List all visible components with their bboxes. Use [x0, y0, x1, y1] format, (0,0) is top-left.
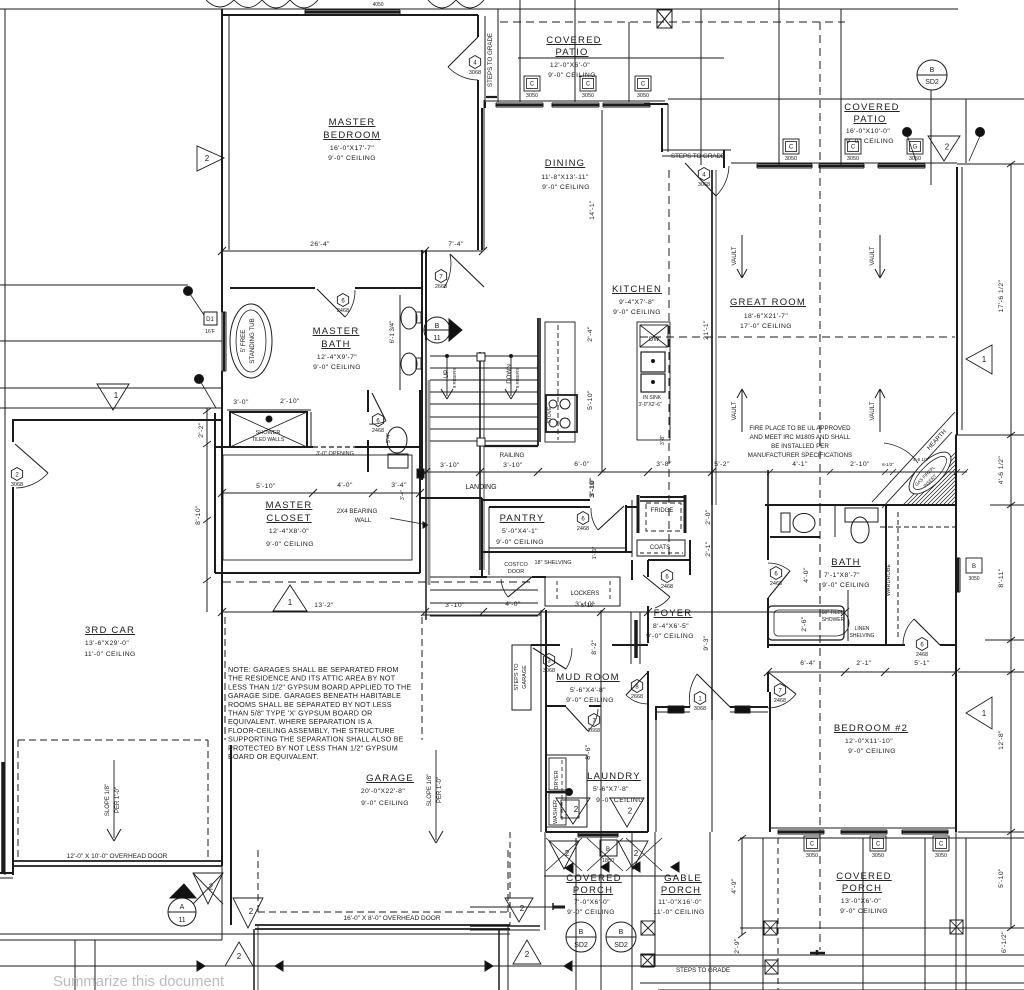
- svg-text:B: B: [972, 564, 976, 570]
- stove: [546, 395, 577, 432]
- wall master bedroom top: [222, 14, 478, 16]
- svg-text:G: G: [913, 145, 918, 151]
- svg-text:RAILING: RAILING: [500, 452, 525, 459]
- svg-text:ROOMS SHALL BE SEPARATED BY NO: ROOMS SHALL BE SEPARATED BY NOT LESS: [228, 700, 392, 709]
- arrow porch 4: [671, 862, 679, 872]
- washer appliance: [561, 800, 579, 818]
- wall bedroom2 right: [955, 435, 957, 832]
- svg-text:VAULT: VAULT: [869, 401, 876, 420]
- svg-text:2: 2: [574, 805, 579, 814]
- door 3rdcar side: [15, 444, 48, 473]
- node dot right patio 2: [976, 128, 985, 137]
- wall bath top: [765, 504, 956, 506]
- arrow porch 1: [565, 863, 573, 873]
- wall 3rdcar right: [221, 420, 223, 866]
- svg-text:3050: 3050: [526, 93, 538, 99]
- svg-text:1: 1: [288, 598, 293, 607]
- svg-text:PANTRY: PANTRY: [500, 513, 545, 524]
- wire porch left edge: [507, 925, 509, 990]
- wire gable v3: [709, 832, 711, 990]
- svg-text:3068: 3068: [698, 182, 710, 188]
- svg-text:2468: 2468: [372, 428, 384, 434]
- svg-text:PER 1'-0": PER 1'-0": [437, 777, 443, 803]
- svg-text:6: 6: [341, 298, 345, 304]
- wall garage front stub L: [253, 929, 255, 990]
- wall master bedroom left: [221, 9, 223, 250]
- wire dim h 435: [955, 434, 1024, 436]
- svg-text:12'-4"X9'-7": 12'-4"X9'-7": [317, 354, 357, 361]
- svg-text:SHOWER: SHOWER: [256, 430, 281, 436]
- wall corridor left: [484, 16, 486, 102]
- wall pantry bottom inner: [489, 547, 626, 549]
- svg-text:9'-0" CEILING: 9'-0" CEILING: [613, 309, 661, 316]
- wardrobe dash 2: [880, 526, 956, 528]
- post porch 2: [950, 920, 963, 934]
- svg-text:2468: 2468: [337, 308, 349, 314]
- svg-text:WALL: WALL: [355, 517, 372, 524]
- svg-text:STEPS TO: STEPS TO: [514, 663, 520, 691]
- triangle 2 laundry 2: [610, 798, 644, 827]
- svg-text:11'-8"X13'-11": 11'-8"X13'-11": [541, 174, 589, 181]
- svg-text:18'-6"X21'-7": 18'-6"X21'-7": [744, 313, 789, 320]
- svg-text:5'-0"X4'-1": 5'-0"X4'-1": [502, 528, 538, 535]
- svg-text:AND MEET IRC M1805 AND SHALL: AND MEET IRC M1805 AND SHALL: [750, 434, 851, 441]
- svg-text:4'-0": 4'-0": [337, 482, 353, 489]
- svg-text:2: 2: [634, 849, 639, 858]
- svg-text:7'-0"X6'-0": 7'-0"X6'-0": [574, 899, 610, 906]
- svg-text:9'-0" CEILING: 9'-0" CEILING: [846, 138, 894, 145]
- svg-text:BATH: BATH: [831, 557, 860, 568]
- door hall: [566, 707, 588, 731]
- svg-text:CLOSET: CLOSET: [266, 513, 311, 524]
- railing thick: [484, 445, 538, 447]
- fireplace hatch: [935, 483, 957, 505]
- vanity counter: [399, 295, 401, 390]
- stair tread: [430, 428, 538, 430]
- svg-text:3'-0": 3'-0": [233, 399, 249, 406]
- porch roof X 1: [546, 838, 582, 871]
- wire ridge dashed vertical lower: [819, 505, 821, 950]
- stair tread lower: [430, 589, 538, 591]
- svg-text:2: 2: [565, 849, 570, 858]
- svg-text:3'-8": 3'-8": [656, 461, 672, 468]
- door master bath: [317, 289, 345, 317]
- svg-text:C: C: [530, 82, 535, 88]
- wire porch v4: [924, 838, 926, 990]
- svg-text:COVERED: COVERED: [546, 35, 601, 46]
- shower master: [230, 412, 307, 447]
- door tag 4 master: [469, 56, 480, 69]
- svg-text:B: B: [619, 929, 624, 936]
- svg-text:3050: 3050: [637, 93, 649, 99]
- svg-text:3068: 3068: [543, 668, 555, 674]
- wire porch dashed: [509, 832, 511, 925]
- wall garage front stub R: [498, 929, 500, 990]
- wire right dim line: [1010, 164, 1012, 928]
- wall jog top: [644, 103, 668, 105]
- wire roofline left 4: [0, 407, 222, 409]
- svg-text:DINING: DINING: [545, 158, 585, 169]
- svg-text:4'-6 1/2": 4'-6 1/2": [913, 457, 930, 462]
- wall laundry bottom: [546, 831, 648, 833]
- triangle porch 2: [618, 841, 648, 869]
- door tag 7 master hall: [435, 270, 446, 283]
- wire dashed floorline: [223, 581, 533, 583]
- fridge top: [640, 496, 685, 498]
- svg-text:2: 2: [205, 154, 210, 163]
- wall bath right: [421, 250, 423, 480]
- svg-text:STEPS TO GRADE: STEPS TO GRADE: [676, 967, 730, 974]
- svg-text:PORCH: PORCH: [573, 885, 613, 896]
- wall left lower stub: [1, 762, 5, 872]
- svg-text:9'-0" CEILING: 9'-0" CEILING: [848, 748, 896, 755]
- wall great room left inner: [715, 170, 717, 505]
- washer: [549, 793, 566, 825]
- svg-text:C: C: [851, 145, 856, 151]
- wire dim h 640: [985, 639, 1024, 641]
- svg-text:3'-10": 3'-10": [589, 477, 596, 497]
- wall patio sill line: [485, 100, 665, 102]
- svg-text:3068: 3068: [11, 482, 23, 488]
- svg-text:WASHER: WASHER: [553, 800, 559, 824]
- door tag bedroom2: [916, 638, 927, 651]
- marker A11 arrow: [170, 884, 196, 898]
- svg-text:BEDROOM #2: BEDROOM #2: [834, 723, 908, 734]
- wire dim line master: [222, 250, 483, 252]
- wall bath top left: [230, 287, 315, 289]
- door tag 6 bath: [337, 294, 348, 307]
- svg-text:17'-0" CEILING: 17'-0" CEILING: [740, 323, 792, 330]
- svg-text:A: A: [180, 904, 185, 911]
- triangle 1 left: [97, 384, 129, 410]
- window tag great 1: [783, 139, 799, 154]
- wall spine upper: [425, 250, 427, 340]
- svg-text:6: 6: [774, 571, 778, 577]
- wall jog vertical inner: [667, 104, 669, 152]
- door master hall: [450, 254, 484, 287]
- triangle 1 bedroom: [966, 697, 992, 729]
- shrub arc 2: [428, 0, 456, 8]
- wall jog 2: [723, 150, 725, 168]
- wall bath left upper: [767, 505, 769, 560]
- svg-text:5'-6"X7'-8": 5'-6"X7'-8": [593, 786, 629, 793]
- svg-text:2468: 2468: [661, 584, 673, 590]
- door foyer closet: [643, 575, 670, 597]
- tub master: [230, 304, 272, 378]
- svg-text:WARDROBE: WARDROBE: [886, 564, 892, 597]
- door tag 3rdcar: [11, 468, 22, 481]
- post top: [657, 10, 672, 28]
- 3rdcar door dashed R: [207, 740, 209, 861]
- post gable 2: [641, 954, 654, 967]
- island dashed: [557, 325, 559, 440]
- wall pantry right inner: [631, 500, 633, 557]
- svg-text:4'-1": 4'-1": [792, 461, 808, 468]
- wire roofline left 3: [0, 387, 222, 389]
- slope arrow 3rdcar: [113, 760, 115, 838]
- wire eave dashed top: [500, 21, 845, 23]
- wall fridge right: [684, 495, 687, 533]
- wall front left: [655, 706, 690, 708]
- wire roof dashed kitchen: [668, 170, 670, 560]
- wire bl h: [0, 939, 222, 941]
- wire steps line right: [640, 954, 1024, 956]
- shrub arc 2b: [456, 0, 484, 8]
- sink 2: [641, 374, 665, 392]
- dim tick right: [1007, 669, 1015, 675]
- svg-text:11'-0" CEILING: 11'-0" CEILING: [653, 909, 705, 916]
- svg-text:12'-4"X8'-0": 12'-4"X8'-0": [269, 528, 309, 535]
- svg-text:2468: 2468: [774, 698, 786, 704]
- svg-text:7: 7: [778, 688, 782, 694]
- door tag mud2: [631, 680, 642, 693]
- wall wardrobe left: [885, 505, 887, 645]
- svg-text:STEPS TO GRADE: STEPS TO GRADE: [671, 153, 725, 160]
- svg-text:13'-0"X6'-0": 13'-0"X6'-0": [841, 898, 881, 905]
- wire porch v right: [965, 838, 967, 990]
- wire dim stairs: [420, 471, 720, 473]
- wire dim h 164: [957, 163, 1024, 165]
- window bedroom2 b1: [778, 829, 824, 831]
- kitchen counter right: [637, 322, 670, 440]
- window patio 2: [552, 102, 599, 104]
- wire dim h 505: [990, 504, 1024, 506]
- svg-text:9'-0" CEILING: 9'-0" CEILING: [496, 539, 544, 546]
- ridge end tick: [816, 950, 819, 955]
- toilet master: [387, 427, 407, 453]
- svg-text:21'-1": 21'-1": [703, 320, 710, 340]
- wall wc right: [834, 505, 836, 537]
- dim tick right: [1007, 925, 1015, 931]
- section marker B11: [424, 317, 450, 343]
- stair tread: [430, 367, 538, 369]
- wall pantry bottom: [482, 551, 632, 553]
- svg-text:2668: 2668: [631, 694, 643, 700]
- vault arrow down: [741, 235, 743, 277]
- arrow bottom line 1: [197, 961, 205, 971]
- svg-text:FOYER: FOYER: [654, 608, 693, 619]
- svg-text:1'-11": 1'-11": [592, 547, 598, 560]
- svg-text:9'-0" CEILING: 9'-0" CEILING: [822, 582, 870, 589]
- triangle 1 great room: [966, 345, 992, 374]
- svg-text:SLOPE 1/8": SLOPE 1/8": [427, 774, 433, 806]
- svg-text:7'-1"X8'-7": 7'-1"X8'-7": [824, 572, 860, 579]
- svg-text:VAULT: VAULT: [731, 401, 738, 420]
- svg-text:3050: 3050: [806, 853, 818, 859]
- arrow grade 2: [564, 961, 572, 971]
- wall 3rdcar top: [13, 419, 222, 421]
- fireplace hatch: [939, 487, 957, 505]
- svg-text:2: 2: [628, 807, 633, 816]
- svg-text:6'-1/2": 6'-1/2": [1001, 931, 1008, 953]
- svg-text:STOVE: STOVE: [547, 406, 553, 424]
- svg-text:6'-4": 6'-4": [800, 660, 816, 667]
- svg-text:GABLE: GABLE: [664, 873, 702, 884]
- svg-text:2'-10": 2'-10": [850, 461, 870, 468]
- svg-text:13'-6"X29'-0": 13'-6"X29'-0": [85, 640, 130, 647]
- door bedroom hall: [768, 672, 796, 694]
- fireplace hatch: [919, 467, 957, 505]
- door toilet room: [372, 393, 386, 421]
- wire dim shower: [227, 409, 311, 411]
- wire porch line: [470, 906, 556, 908]
- svg-text:1: 1: [982, 355, 987, 364]
- svg-text:5'-10": 5'-10": [256, 483, 276, 490]
- triangle 2 top left: [197, 146, 224, 171]
- triangle 2 laundry 1: [556, 798, 590, 824]
- wire SD2 leader: [930, 90, 932, 185]
- svg-text:B: B: [930, 67, 935, 74]
- svg-text:3'-10": 3'-10": [440, 462, 460, 469]
- wall bath top right: [355, 287, 422, 289]
- wall pantry top: [489, 506, 590, 508]
- triangle 2 bl 2: [233, 898, 263, 928]
- svg-text:5'-4": 5'-4": [386, 433, 392, 443]
- island left: [539, 318, 541, 442]
- svg-text:2: 2: [525, 950, 530, 959]
- svg-text:FLOOR-CEILING ASSEMBLY, THE ST: FLOOR-CEILING ASSEMBLY, THE STRUCTURE: [228, 726, 395, 735]
- wall jog vertical: [661, 108, 663, 152]
- leader shower dot: [199, 379, 216, 408]
- up arrow shaft: [446, 356, 448, 396]
- wall 3rdcar left upper: [12, 419, 14, 442]
- triangle porch 1: [549, 841, 579, 869]
- svg-text:SD2: SD2: [614, 942, 628, 949]
- wire steps line 2: [640, 982, 1024, 984]
- svg-text:LESS THAN 1/2" GYPSUM BOARD AP: LESS THAN 1/2" GYPSUM BOARD APPLIED TO T…: [228, 682, 411, 691]
- svg-text:THAN 5/8" TYPE 'X' GYPSUM BOAR: THAN 5/8" TYPE 'X' GYPSUM BOARD OR: [228, 709, 373, 718]
- wire gable post left: [655, 712, 657, 832]
- tub bath: [768, 606, 844, 640]
- wire porch v1: [762, 838, 764, 990]
- fireplace hatch: [907, 455, 957, 505]
- svg-text:C: C: [641, 82, 646, 88]
- node dot shower drain: [266, 416, 272, 422]
- X mark bl: [193, 873, 223, 904]
- svg-text:9'-0" CEILING: 9'-0" CEILING: [313, 364, 361, 371]
- svg-text:9'-4"X7'-8": 9'-4"X7'-8": [619, 299, 655, 306]
- svg-text:18" SHELVING: 18" SHELVING: [534, 560, 571, 566]
- post porch 3: [765, 960, 778, 974]
- burner 1: [560, 399, 570, 409]
- svg-text:THE RESIDENCE AND ITS ATTIC AR: THE RESIDENCE AND ITS ATTIC AREA BY NOT: [228, 674, 396, 683]
- wire dim line great room ext: [720, 471, 967, 473]
- wall great room top sill: [731, 162, 957, 164]
- svg-text:8'-11": 8'-11": [998, 568, 1005, 587]
- svg-text:MASTER: MASTER: [329, 117, 376, 128]
- svg-text:9'-0" CEILING: 9'-0" CEILING: [566, 697, 614, 704]
- svg-text:5'-2": 5'-2": [714, 461, 730, 468]
- window laundry: [578, 832, 618, 834]
- svg-text:6: 6: [581, 516, 585, 522]
- svg-text:4'-9": 4'-9": [731, 878, 738, 894]
- section marker A11: [168, 898, 196, 926]
- svg-text:11'-0" CEILING: 11'-0" CEILING: [84, 651, 136, 658]
- svg-text:D1: D1: [206, 317, 214, 323]
- wire steps line 3: [658, 989, 1024, 990]
- wall bath bottom: [768, 644, 905, 646]
- svg-text:LANDING: LANDING: [465, 484, 496, 491]
- window master bedroom top: [305, 9, 400, 11]
- window tag C1: [524, 76, 540, 91]
- node dot shower: [195, 375, 204, 384]
- svg-text:9'-0" CEILING: 9'-0" CEILING: [328, 155, 376, 162]
- svg-text:7: 7: [439, 274, 443, 280]
- arrow porch 2: [601, 862, 609, 872]
- door tag pantry: [577, 512, 588, 525]
- wire dashed garage interior: [421, 617, 423, 740]
- stair tread: [430, 416, 538, 418]
- svg-text:2'-0": 2'-0": [705, 509, 712, 525]
- svg-text:BE INSTALLED PER: BE INSTALLED PER: [771, 443, 829, 450]
- garage door dashed L: [257, 850, 259, 912]
- leader D1: [188, 291, 204, 315]
- svg-text:2: 2: [237, 952, 242, 961]
- svg-text:PROTECTED BY NOT LESS THAN 1/2: PROTECTED BY NOT LESS THAN 1/2" GYPSUM: [228, 743, 398, 752]
- dishwasher: [640, 325, 668, 347]
- svg-text:DRYER: DRYER: [554, 770, 560, 789]
- ridge tick left: [552, 903, 554, 910]
- svg-text:6'-0": 6'-0": [574, 461, 590, 468]
- svg-text:2'-1": 2'-1": [705, 541, 712, 557]
- wire patio eave line: [518, 57, 724, 59]
- wall garage front: [255, 924, 510, 926]
- 3rdcar door dashed top: [18, 739, 208, 741]
- garage door dashed bottom: [258, 911, 508, 913]
- window bedroom2 right: [955, 558, 957, 592]
- svg-text:GARAGE: GARAGE: [366, 773, 414, 784]
- wire roofline left 2: [0, 340, 222, 342]
- wall hall great room: [767, 470, 769, 505]
- svg-text:Summarize this document: Summarize this document: [53, 974, 224, 990]
- svg-text:9'-0" CEILING: 9'-0" CEILING: [542, 184, 590, 191]
- svg-text:FRIDGE: FRIDGE: [651, 508, 674, 514]
- slope arrow garage: [435, 750, 437, 840]
- wall foyer left mid: [647, 606, 649, 643]
- wire grid v6: [840, 9, 842, 165]
- stair rail center: [479, 352, 481, 570]
- wall steps top line: [662, 149, 731, 151]
- coats closet: [637, 540, 685, 556]
- door mud foyer: [626, 672, 648, 695]
- wire grid v2: [574, 0, 576, 102]
- wall fireplace diagonal outer: [872, 412, 955, 502]
- fireplace hatch: [947, 495, 957, 505]
- dim tick right: [1007, 637, 1015, 643]
- svg-text:11'-0"X16'-0": 11'-0"X16'-0": [658, 899, 702, 906]
- up chevron: [441, 389, 447, 399]
- svg-text:COVERED: COVERED: [566, 873, 621, 884]
- wire grid v4: [700, 9, 702, 165]
- wire porch line left: [0, 933, 510, 935]
- solid arrow: [423, 522, 428, 528]
- arrow grade 1: [485, 961, 493, 971]
- svg-text:2468: 2468: [916, 652, 928, 658]
- window tag great 3: [907, 139, 923, 154]
- wall bath left upper: [221, 250, 223, 312]
- svg-text:3050: 3050: [847, 156, 859, 162]
- wire dim v left: [206, 408, 208, 612]
- svg-text:BOARD OR EQUIVALENT.: BOARD OR EQUIVALENT.: [228, 752, 319, 761]
- wall bedroom2 left: [769, 692, 771, 832]
- svg-text:20'-0"X22'-8": 20'-0"X22'-8": [361, 788, 406, 795]
- svg-text:4'-0": 4'-0": [505, 601, 521, 608]
- door great room patio: [685, 163, 716, 196]
- door tag front: [694, 692, 705, 705]
- fireplace hatch: [951, 499, 957, 505]
- svg-text:14'-1": 14'-1": [589, 200, 596, 220]
- svg-text:12'-0"X11'-10": 12'-0"X11'-10": [845, 738, 893, 745]
